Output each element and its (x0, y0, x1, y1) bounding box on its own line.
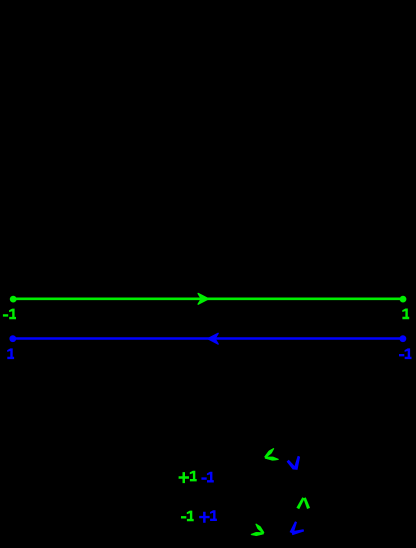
label +1 blue row2 (199, 510, 217, 522)
label 1 below left blue endpoint (7, 348, 14, 359)
label +1 green row1 (179, 471, 197, 483)
blue chevron arrowhead at upper right of loop, pointing down (287, 456, 300, 469)
label -1 green row2 (181, 511, 194, 522)
node blue endpoint 1 (left) (9, 335, 16, 342)
green stealth arrowhead at middle, pointing right (198, 294, 208, 305)
green chevron arrowhead at bottom left of loop, pointing down-right (251, 524, 264, 536)
blue stealth arrowhead at middle, pointing left (208, 333, 218, 344)
label -1 below left green endpoint (3, 309, 16, 320)
green chevron arrowhead at right of loop, pointing up (297, 497, 310, 509)
blue chevron arrowhead at bottom of loop, pointing down-left (290, 522, 304, 535)
node blue endpoint -1 (right) (400, 335, 407, 342)
green chevron arrowhead at top of loop, pointing left (264, 448, 278, 460)
label -1 below right blue endpoint (399, 348, 412, 359)
node green endpoint -1 (left) (10, 296, 17, 303)
wire green segment (13, 297, 403, 300)
node green endpoint +1 (right) (400, 296, 407, 303)
label -1 blue row1 (201, 472, 213, 483)
label 1 below right green endpoint (402, 309, 409, 320)
wire blue segment (13, 337, 403, 340)
